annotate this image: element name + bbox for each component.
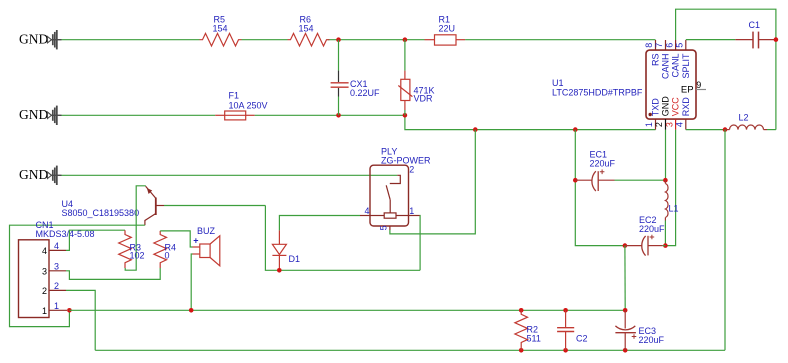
relay switch contact (pin 2): [386, 165, 414, 213]
svg-text:2: 2: [409, 165, 414, 175]
wire EC1 left riser: [575, 130, 625, 246]
svg-text:1: 1: [409, 206, 414, 216]
capacitor C2: [557, 310, 587, 350]
svg-text:5: 5: [675, 43, 685, 48]
svg-text:3: 3: [664, 122, 674, 127]
svg-text:22U: 22U: [439, 23, 456, 33]
wire pin4 to L2: [686, 129, 725, 131]
capacitor CX1: [331, 40, 380, 116]
bottom area: [95, 308, 725, 353]
op-amp U1 body LTC2875: [552, 50, 696, 119]
svg-text:GND: GND: [661, 96, 671, 117]
svg-text:220uF: 220uF: [590, 159, 616, 169]
capacitor C1: [735, 20, 776, 48]
svg-text:VCC: VCC: [671, 97, 681, 117]
wire EC1 right to L1 top: [615, 179, 666, 181]
svg-text:RXD: RXD: [681, 97, 691, 117]
svg-text:RS: RS: [651, 54, 661, 67]
svg-text:9: 9: [696, 80, 701, 90]
svg-text:ZG-POWER: ZG-POWER: [381, 156, 431, 166]
CN1 pin 1: [42, 301, 67, 316]
wire L1 bottom to EC2 right: [664, 221, 666, 246]
wire R1 right to U1 pin 8: [465, 39, 655, 41]
svg-text:SPLIT: SPLIT: [681, 53, 691, 79]
svg-text:1: 1: [644, 122, 654, 127]
emitter with arrow: [146, 186, 156, 198]
top-line components: [200, 14, 466, 120]
junction rail C2 top: [563, 308, 568, 313]
junction L2 left: [723, 127, 728, 132]
CN1 pin 2: [42, 281, 66, 296]
junction L1 top: [663, 178, 668, 183]
wire CN1 pin2 to bottom rail: [66, 290, 95, 350]
junction C1 right: [774, 37, 779, 42]
wire pin6 loop to C1 right: [676, 9, 776, 129]
wire relay pin4 to D1 top riser: [279, 216, 360, 231]
junction VDR bottom: [403, 113, 408, 118]
resistor R5: [200, 14, 242, 46]
GND port 1: [19, 30, 62, 49]
wire relay pin1 down to D1 bottom line: [419, 216, 421, 271]
svg-text:L2: L2: [739, 113, 749, 123]
svg-text:7: 7: [654, 43, 664, 48]
svg-text:6: 6: [664, 43, 674, 48]
U1 pin 2 GND: [654, 96, 670, 130]
wire CN1 pin3 to R4 bottom: [66, 268, 160, 279]
wire R4 top to BUZ plus: [160, 231, 192, 247]
U1 pin 6 CANL: [664, 40, 680, 78]
svg-text:GND: GND: [19, 32, 48, 47]
svg-text:F1: F1: [229, 90, 240, 100]
wire pin2 GND down to L1 top: [665, 130, 667, 180]
svg-text:102: 102: [130, 251, 145, 261]
svg-text:2: 2: [42, 286, 47, 296]
capacitor EC2 220uF: [625, 215, 666, 255]
svg-text:C1: C1: [749, 20, 761, 30]
svg-text:4: 4: [675, 122, 685, 127]
left area: [10, 186, 626, 350]
inductor L1: [665, 180, 678, 220]
varistor VDR 471K: [398, 40, 434, 116]
wire base to relay/D1 net: [164, 205, 265, 207]
junction mid rail relay branch: [473, 127, 478, 132]
collector: [145, 214, 156, 226]
svg-text:220uF: 220uF: [639, 335, 665, 345]
U1 pin 4 RXD: [675, 97, 691, 130]
svg-text:L1: L1: [669, 204, 679, 214]
U1 pin 9 EP pad: [681, 80, 706, 95]
wire CN1 pin4 to R3 top: [66, 230, 125, 250]
svg-text:CANH: CANH: [661, 54, 671, 80]
svg-text:4: 4: [42, 246, 47, 256]
wire collector to CN1 pin1 net: [10, 225, 145, 326]
GND port 2: [19, 106, 62, 125]
resistor R6: [288, 14, 330, 46]
relay pin 1: [409, 206, 420, 216]
relay pin 4: [360, 206, 370, 216]
U1 pin 3 VCC: [664, 97, 680, 130]
svg-text:3: 3: [42, 266, 47, 276]
base lead: [156, 205, 164, 207]
pin 1 marker dot: [649, 113, 652, 116]
wire emitter to R3 bottom: [125, 186, 145, 270]
wire right riser L2 to bottom rail: [724, 130, 726, 351]
svg-text:511: 511: [527, 334, 541, 344]
relay area: [265, 130, 475, 273]
svg-text:154: 154: [299, 23, 314, 33]
buzzer BUZ: [193, 226, 220, 266]
wire R5 to R6: [242, 39, 288, 41]
junction mid rail EC1 branch: [573, 127, 578, 132]
CN1 pin 4: [42, 241, 66, 256]
junction bottom C2: [563, 348, 568, 353]
svg-text:S8050_C18195380: S8050_C18195380: [62, 208, 140, 218]
resistor R2: [515, 310, 541, 350]
diode D1: [272, 230, 300, 270]
svg-text:0: 0: [165, 251, 170, 261]
junction EC1 left: [573, 178, 578, 183]
relay PLY ZG-POWER body: [370, 146, 431, 226]
svg-text:1: 1: [54, 301, 59, 311]
wire pin3 VCC down to EC2 right: [665, 130, 675, 246]
junction R1/VDR top: [403, 37, 408, 42]
svg-text:2: 2: [54, 281, 59, 291]
right caps area: [573, 130, 725, 351]
junction CX1 bottom: [336, 113, 341, 118]
svg-text:BUZ: BUZ: [197, 226, 216, 236]
GND port 3: [19, 166, 62, 185]
junction EC2 left: [623, 243, 628, 248]
wire gnd1 to R5: [62, 39, 200, 41]
wire EC2 left down to rail: [624, 246, 626, 311]
capacitor EC3 220uF: [615, 310, 664, 350]
svg-text:+: +: [193, 236, 198, 246]
svg-text:4: 4: [365, 206, 370, 216]
wire F1 to node VDR bottom: [255, 114, 405, 116]
wire relay pin5 to mid rail riser: [390, 130, 475, 234]
junction rail EC3 top: [623, 308, 628, 313]
svg-text:2: 2: [654, 122, 664, 127]
junction bottom R2: [519, 348, 524, 353]
U1 pin 5 SPLIT: [675, 40, 691, 79]
svg-text:220uF: 220uF: [639, 224, 665, 234]
U1 pin 8 RS: [644, 40, 660, 66]
svg-text:CANL: CANL: [671, 54, 681, 78]
wire L2 right to right riser: [767, 129, 776, 131]
wire bottom rail: [95, 349, 725, 351]
relay coil: [370, 213, 409, 218]
svg-text:4: 4: [54, 241, 59, 251]
resistor R3: [119, 230, 145, 268]
wire R6 to node CX1 top to node R1: [328, 39, 425, 41]
junction BUZ rail: [189, 308, 194, 313]
svg-text:5: 5: [379, 225, 389, 230]
svg-text:154: 154: [213, 23, 228, 33]
junction rail R2 top: [519, 308, 524, 313]
wire pin5 to C1 left: [686, 39, 736, 41]
wire gnd3 to relay pin 2: [62, 174, 398, 176]
junction CX1 top: [336, 37, 341, 42]
junction bottom EC3: [623, 348, 628, 353]
svg-text:10A 250V: 10A 250V: [229, 100, 268, 110]
fuse F1: [215, 90, 267, 120]
svg-text:1: 1: [42, 306, 47, 316]
svg-text:GND: GND: [19, 107, 48, 122]
inductor L2: [725, 113, 767, 130]
junction D1 bottom: [277, 268, 282, 273]
svg-text:EP: EP: [681, 84, 694, 95]
wire CN1 pin1 rail: [69, 309, 625, 311]
svg-text:8: 8: [644, 43, 654, 48]
svg-text:0.22UF: 0.22UF: [350, 88, 380, 98]
junction CN1 pin1: [67, 308, 72, 313]
svg-text:3: 3: [54, 261, 59, 271]
CN1 pin 3: [42, 261, 66, 276]
U1 pin 1 TXD: [644, 98, 660, 130]
capacitor EC1 220uF: [575, 150, 615, 191]
connector CN1 MKDS3/4-5.08: [19, 220, 95, 318]
svg-text:GND: GND: [19, 167, 48, 182]
svg-text:LTC2875HDD#TRPBF: LTC2875HDD#TRPBF: [552, 87, 643, 97]
transistor Q U4 S8050: [62, 186, 165, 225]
resistor R4: [154, 231, 176, 268]
svg-text:C2: C2: [576, 334, 588, 344]
wire D1 bottom line (base net): [265, 206, 420, 271]
svg-text:TXD: TXD: [651, 98, 661, 117]
svg-text:VDR: VDR: [414, 94, 434, 104]
U1 area: [552, 9, 778, 245]
junction EC2 right: [663, 243, 668, 248]
relay pin 5: [379, 225, 390, 230]
wire VDR node down to mid rail: [405, 115, 656, 129]
wire BUZ minus down to rail: [191, 254, 192, 310]
ports and top nets: [19, 30, 656, 185]
U1 pin 7 CANH: [654, 40, 670, 79]
wire gnd2 to F1: [62, 114, 216, 116]
resistor R1: [425, 14, 466, 45]
svg-text:D1: D1: [289, 254, 301, 264]
